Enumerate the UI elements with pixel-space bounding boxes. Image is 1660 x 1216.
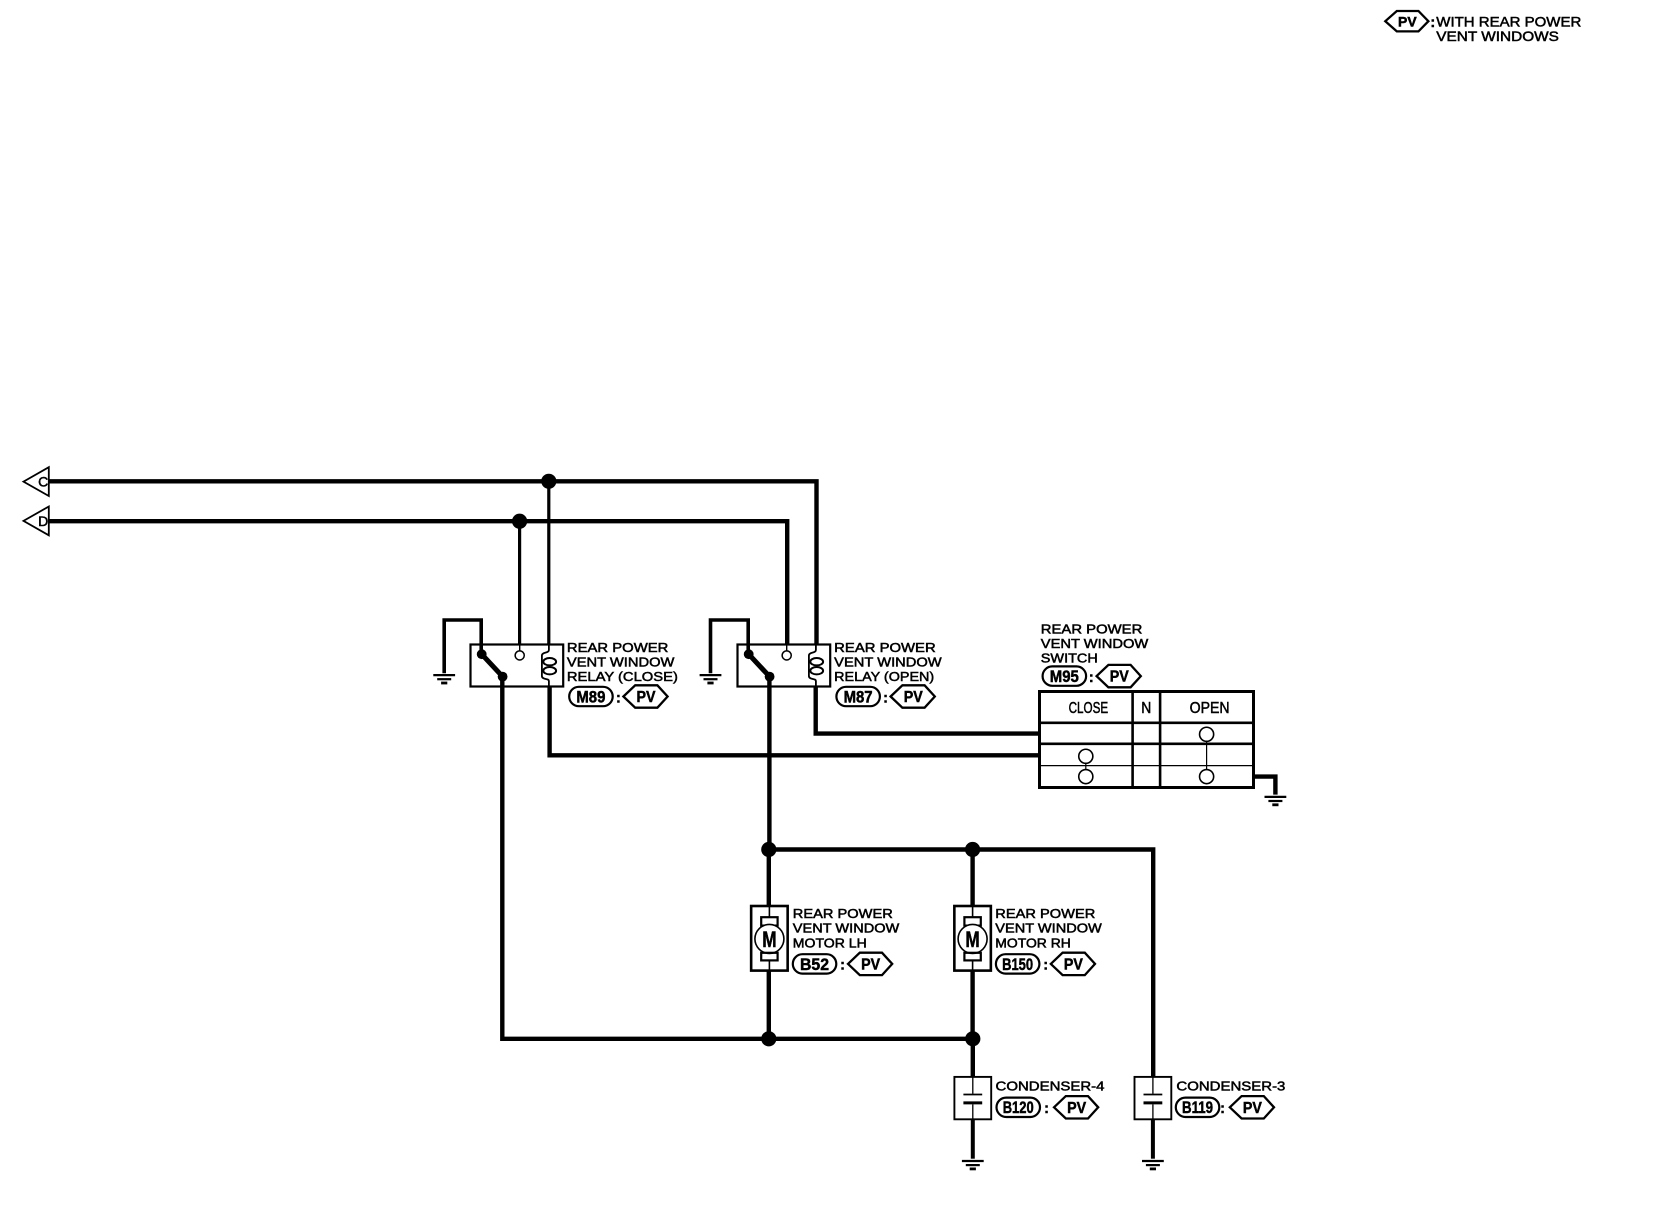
svg-text:B52: B52 bbox=[800, 955, 829, 974]
svg-text::: : bbox=[616, 690, 621, 706]
svg-text:REAR POWER: REAR POWER bbox=[567, 640, 669, 655]
svg-text::: : bbox=[1044, 1101, 1049, 1117]
svg-text:M: M bbox=[965, 928, 979, 953]
svg-text::: : bbox=[1089, 670, 1094, 686]
svg-text::: : bbox=[1430, 15, 1435, 31]
svg-text:WITH REAR POWER: WITH REAR POWER bbox=[1436, 14, 1581, 29]
svg-text:CONDENSER-3: CONDENSER-3 bbox=[1176, 1078, 1285, 1093]
svg-text:MOTOR RH: MOTOR RH bbox=[995, 936, 1071, 951]
svg-text:REAR POWER: REAR POWER bbox=[793, 906, 893, 921]
svg-text:VENT WINDOW: VENT WINDOW bbox=[567, 655, 675, 670]
svg-text:B120: B120 bbox=[1003, 1098, 1034, 1117]
svg-text::: : bbox=[840, 958, 845, 974]
svg-text:N: N bbox=[1141, 700, 1151, 717]
svg-text:VENT WINDOW: VENT WINDOW bbox=[834, 655, 942, 670]
svg-text:C: C bbox=[38, 474, 48, 490]
svg-text:REAR POWER: REAR POWER bbox=[834, 640, 936, 655]
svg-text:VENT WINDOW: VENT WINDOW bbox=[1041, 636, 1149, 651]
svg-text:M95: M95 bbox=[1050, 667, 1079, 686]
svg-text:RELAY (OPEN): RELAY (OPEN) bbox=[834, 669, 934, 684]
svg-text:CLOSE: CLOSE bbox=[1069, 700, 1109, 717]
svg-text:OPEN: OPEN bbox=[1190, 700, 1230, 717]
svg-text:VENT WINDOW: VENT WINDOW bbox=[793, 921, 900, 936]
svg-text:M87: M87 bbox=[844, 687, 873, 706]
svg-text:REAR POWER: REAR POWER bbox=[1041, 622, 1143, 637]
svg-text:PV: PV bbox=[1110, 669, 1129, 686]
svg-text:PV: PV bbox=[1398, 14, 1417, 30]
svg-text:M: M bbox=[762, 928, 776, 953]
svg-text:PV: PV bbox=[1064, 956, 1083, 973]
svg-text:D: D bbox=[38, 513, 48, 529]
svg-text:MOTOR LH: MOTOR LH bbox=[793, 936, 867, 951]
svg-text:RELAY (CLOSE): RELAY (CLOSE) bbox=[567, 669, 678, 684]
svg-text::: : bbox=[1220, 1101, 1225, 1117]
svg-text:PV: PV bbox=[861, 956, 880, 973]
svg-text:B150: B150 bbox=[1002, 955, 1033, 974]
svg-text:CONDENSER-4: CONDENSER-4 bbox=[996, 1078, 1105, 1093]
svg-text:PV: PV bbox=[1243, 1100, 1262, 1117]
svg-text:VENT WINDOW: VENT WINDOW bbox=[995, 921, 1102, 936]
svg-text:PV: PV bbox=[637, 689, 656, 706]
svg-text:PV: PV bbox=[904, 689, 923, 706]
svg-text:SWITCH: SWITCH bbox=[1041, 651, 1098, 666]
svg-text:PV: PV bbox=[1067, 1100, 1086, 1117]
svg-text::: : bbox=[883, 690, 888, 706]
svg-text:B119: B119 bbox=[1182, 1098, 1213, 1117]
svg-text::: : bbox=[1043, 958, 1048, 974]
svg-text:REAR POWER: REAR POWER bbox=[995, 906, 1095, 921]
svg-text:M89: M89 bbox=[576, 687, 605, 706]
svg-text:VENT WINDOWS: VENT WINDOWS bbox=[1436, 29, 1559, 44]
